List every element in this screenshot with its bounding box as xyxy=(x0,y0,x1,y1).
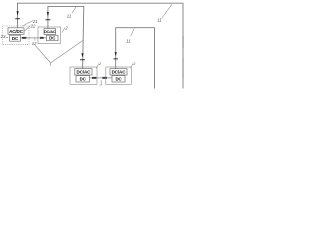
box DC/AC (bottom-left) xyxy=(75,69,92,75)
svg-text:DC: DC xyxy=(49,36,56,41)
label 21 with leader xyxy=(22,19,38,27)
terminal D4 xyxy=(102,77,107,79)
terminal D2 xyxy=(40,37,44,39)
label 22 with leader xyxy=(25,24,37,31)
arrow A4 into bottom-right inverter xyxy=(114,52,118,59)
label 2 slash (bottom-right unit) xyxy=(131,62,137,68)
terminal D3 xyxy=(92,77,96,79)
svg-text:12: 12 xyxy=(32,41,37,46)
box DC of unit 3 xyxy=(47,35,59,41)
DC bus wire 12 (top) xyxy=(21,37,47,39)
arrow A3 into bottom-left inverter xyxy=(80,53,85,60)
box DC (bottom-left) xyxy=(76,76,90,82)
bottom-left inverter unit enclosure xyxy=(70,67,97,84)
svg-text:DC: DC xyxy=(80,76,87,81)
AC bus line 11 (right lower) with rails xyxy=(116,28,155,89)
box DC (22) xyxy=(10,35,21,41)
darker lower segment of right rail xyxy=(182,58,184,78)
arrow A1 into AC/DC box xyxy=(15,11,20,19)
svg-text:DC/AC: DC/AC xyxy=(44,29,56,34)
label 11 #2 with slash leader xyxy=(126,28,134,43)
svg-text:11: 11 xyxy=(67,13,71,18)
AC feeder line into unit 3 (second bus) xyxy=(48,6,84,68)
label 2 slash (bottom-left unit) xyxy=(96,62,102,68)
terminal D1 xyxy=(22,37,26,39)
box DC/AC (bottom-right) xyxy=(110,69,127,75)
svg-text:DC/AC: DC/AC xyxy=(77,70,92,75)
svg-text:11: 11 xyxy=(157,17,161,22)
arrow A2 into unit 3 xyxy=(46,12,51,20)
bottom-right inverter unit enclosure xyxy=(106,67,132,84)
darker segment of right rail xyxy=(182,36,184,48)
DC bus wire (bottom) xyxy=(90,77,113,79)
svg-text:DC: DC xyxy=(12,36,19,41)
label 23 with tick xyxy=(0,34,8,39)
leader V left branch xyxy=(35,45,50,62)
box DC (bottom-right) xyxy=(112,76,125,82)
leader V right branch xyxy=(51,40,83,63)
svg-text:DC/AC: DC/AC xyxy=(112,70,127,75)
unit 2 dashed enclosure (top-left) xyxy=(2,26,29,45)
svg-text:AC/DC: AC/DC xyxy=(9,29,24,34)
label 2 with slash leader (unit 3) xyxy=(62,25,68,32)
svg-text:22: 22 xyxy=(30,24,36,29)
box AC/DC (21) xyxy=(8,28,24,35)
box DC/AC of unit 3 xyxy=(44,29,56,35)
small label 1 under bottom wire xyxy=(99,80,102,85)
unit 3 enclosure (top-middle, solid) xyxy=(38,27,61,44)
AC bus line 11 (top, long) with right rail xyxy=(18,3,184,88)
vertex tick 1 xyxy=(49,63,51,66)
svg-text:DC: DC xyxy=(115,76,122,81)
label 12 with tick xyxy=(32,38,37,46)
label 11 #1 with slash leader xyxy=(67,6,77,18)
svg-text:23: 23 xyxy=(0,34,6,39)
svg-text:11: 11 xyxy=(126,38,130,43)
label 11 #3 with slash leader xyxy=(157,4,172,22)
